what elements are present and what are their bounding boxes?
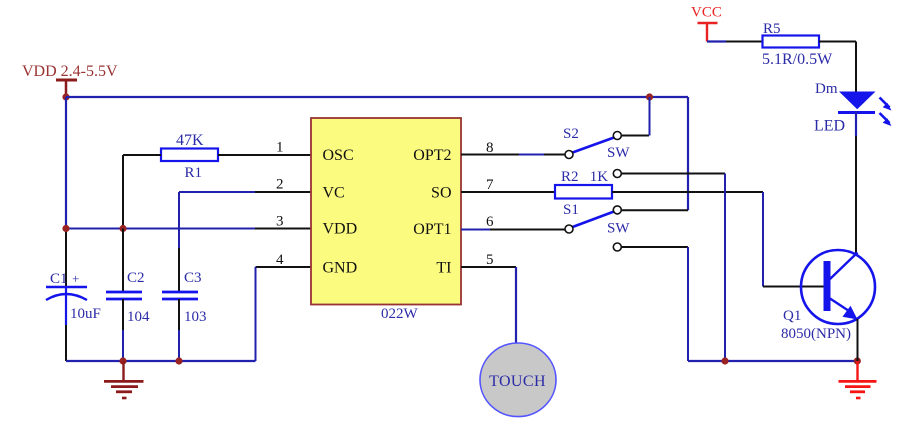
wire VDD left vertical upper <box>65 97 67 229</box>
svg-text:VC: VC <box>323 185 345 202</box>
wire LED cathode blue segment <box>855 112 857 137</box>
wire GND pin 4 vertical <box>255 267 257 361</box>
svg-text:47K: 47K <box>176 132 204 149</box>
wire VC horizontal navy part <box>179 191 255 193</box>
svg-text:4: 4 <box>276 252 284 268</box>
transistor Q1 <box>801 250 875 324</box>
svg-text:VDD: VDD <box>323 221 358 238</box>
wire VDD left vertical to C1 <box>65 229 67 288</box>
wire pin 8 black segment b <box>544 154 565 156</box>
svg-text:8: 8 <box>486 140 494 156</box>
wire pin 6 navy segment <box>461 229 490 231</box>
power symbol VCC bar <box>698 23 718 42</box>
wire R1 left <box>123 154 161 156</box>
svg-text:R1: R1 <box>185 165 203 181</box>
wire VC vertical down to C3 navy <box>178 192 180 248</box>
svg-text:022W: 022W <box>381 306 419 322</box>
svg-text:GND: GND <box>323 260 358 277</box>
wire S1 lower throw vertical to ground rail <box>687 247 689 361</box>
switch S1 <box>565 206 621 233</box>
junction dot R1-C2 / pin3 <box>119 225 126 232</box>
svg-text:Dm: Dm <box>815 81 838 97</box>
resistor R2 <box>555 185 612 199</box>
wire pin 7 to R2 <box>461 191 555 193</box>
svg-text:5: 5 <box>486 252 494 268</box>
svg-text:OPT1: OPT1 <box>413 221 451 238</box>
ground symbol right <box>839 361 877 398</box>
LED Dm <box>838 92 892 127</box>
svg-text:VDD 2.4-5.5V: VDD 2.4-5.5V <box>22 63 118 80</box>
junction dot where S2 throw joins rail <box>646 93 653 100</box>
wire pin 8 navy segment <box>519 154 544 156</box>
svg-text:C3: C3 <box>184 270 202 286</box>
IC U1 022W body <box>311 118 461 305</box>
wire to Q1 base <box>763 286 825 288</box>
wire emitter to ground rail <box>857 319 859 361</box>
wire S2 throw to rail horizontal <box>621 135 649 137</box>
wire R2 right horizontal <box>612 191 763 193</box>
wire pin 6 black segment <box>490 229 565 231</box>
touch pad TOUCH <box>480 343 556 417</box>
wire R1 left vertical down <box>122 155 124 229</box>
svg-text:2: 2 <box>276 177 284 193</box>
wire R5 right horizontal <box>819 41 856 43</box>
wire C2 vertical upper <box>122 229 124 293</box>
junction dot C2 at ground rail <box>119 357 126 364</box>
svg-text:6: 6 <box>486 214 494 230</box>
svg-text:10uF: 10uF <box>70 306 101 322</box>
wire VC horizontal black part to pin 2 <box>255 191 311 193</box>
wire bottom right ground rail <box>688 360 858 362</box>
wire rail drop to S1 upper throw <box>687 97 689 210</box>
wire VDD pin 3 horizontal navy <box>66 228 255 230</box>
wire C2 vertical lower black <box>122 299 124 330</box>
svg-text:C1: C1 <box>50 271 68 287</box>
wire C2 vertical lower navy <box>122 330 124 361</box>
svg-text:SO: SO <box>431 185 451 202</box>
svg-text:1: 1 <box>276 140 284 156</box>
wire VCC to R5 navy <box>707 40 726 42</box>
capacitor C2 <box>106 292 142 299</box>
junction dot C3 at ground rail <box>175 357 182 364</box>
wire VC vertical down to C3 black <box>178 248 180 292</box>
wire VDD pin 3 horizontal black <box>255 228 311 230</box>
power symbol VDD bar <box>56 80 77 97</box>
svg-text:104: 104 <box>127 309 150 325</box>
svg-text:3: 3 <box>276 214 284 230</box>
svg-text:OPT2: OPT2 <box>413 147 451 164</box>
wire C3 vertical lower black <box>178 299 180 330</box>
wire LED to collector black segment <box>855 136 857 253</box>
junction dot VDD vertical / pin3 <box>62 225 69 232</box>
svg-text:TOUCH: TOUCH <box>489 373 546 390</box>
switch throw node S2 lower <box>613 170 621 178</box>
svg-text:C2: C2 <box>127 270 145 286</box>
wire C3 vertical lower navy <box>178 330 180 361</box>
wire C1 bottom lead <box>65 325 67 361</box>
svg-text:VCC: VCC <box>691 5 722 21</box>
wire R2 down vertical <box>762 192 764 287</box>
wire C1 stem through plates <box>65 287 67 325</box>
wire S2 lower throw horizontal <box>621 173 725 175</box>
wire TI vertical to touch pad <box>515 267 517 344</box>
capacitor C3 <box>162 292 198 299</box>
wire S2 lower throw vertical to ground rail <box>724 174 726 362</box>
svg-text:R2 1K: R2 1K <box>561 169 608 185</box>
svg-text:OSC: OSC <box>323 147 354 164</box>
svg-text:SW: SW <box>607 145 630 161</box>
svg-text:TI: TI <box>436 260 451 277</box>
wire pin 5 TI horizontal <box>461 266 516 268</box>
svg-text:S1: S1 <box>563 202 579 218</box>
wire S1 lower throw horizontal <box>621 246 688 248</box>
svg-text:103: 103 <box>184 309 207 325</box>
junction dot at VDD rail start <box>62 93 69 100</box>
svg-text:5.1R/0.5W: 5.1R/0.5W <box>762 51 833 68</box>
ground symbol left <box>104 361 144 398</box>
wire R1 right to pin 1 <box>218 154 311 156</box>
svg-text:LED: LED <box>814 118 845 135</box>
svg-text:S2: S2 <box>563 126 579 142</box>
resistor R5 <box>763 36 820 48</box>
resistor R1 <box>161 149 218 162</box>
svg-text:Q1: Q1 <box>783 308 801 324</box>
svg-text:+: + <box>72 271 79 286</box>
wire bottom left ground rail <box>66 360 256 362</box>
svg-text:R5: R5 <box>763 21 781 37</box>
junction dot emitter at right rail <box>854 357 861 364</box>
wire VDD horizontal rail <box>66 96 688 98</box>
wire R5 down to LED <box>855 42 857 93</box>
switch throw node S1 lower <box>613 243 621 251</box>
switch S2 <box>565 132 621 159</box>
wire GND pin 4 horizontal <box>256 266 312 268</box>
svg-text:7: 7 <box>486 177 494 193</box>
svg-text:SW: SW <box>607 221 630 237</box>
capacitor C1 <box>46 287 87 300</box>
wire S2 throw to rail vertical <box>649 97 651 136</box>
svg-text:8050(NPN): 8050(NPN) <box>781 326 851 342</box>
junction dot lower throw at right rail <box>721 357 728 364</box>
wire S1 upper throw to rail drop <box>621 209 688 211</box>
wire pin 8 black segment a <box>461 154 519 156</box>
wire VCC to R5 black <box>726 41 763 43</box>
